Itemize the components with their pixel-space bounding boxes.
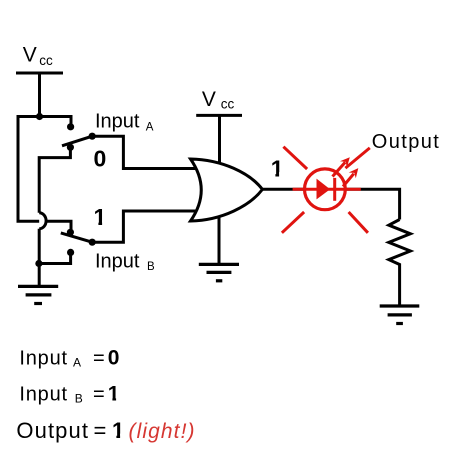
svg-text:Input: Input [19, 384, 67, 406]
switch A (SPDT, set to 0/ground) [62, 123, 96, 151]
svg-text:B: B [147, 261, 155, 273]
label Input_B [95, 250, 155, 273]
svg-text:cc: cc [221, 96, 235, 111]
wire: OR gate ground pin down [218, 214, 221, 264]
resistor R1 [389, 220, 411, 307]
switch B pole dot [89, 239, 96, 246]
switch B bottom contact (to ground) [67, 249, 74, 256]
light ray lower-right [349, 212, 368, 233]
ground symbol (resistor) [380, 306, 420, 324]
switch B blade [61, 233, 92, 242]
switch A blade [62, 136, 92, 146]
light ray upper-left [283, 147, 307, 169]
caption line 3: Output = 1 (light!) [16, 418, 195, 443]
svg-text:Output: Output [16, 418, 89, 443]
wire hop: ground rail hops over Vcc feed wire [39, 213, 46, 229]
Vcc bar (gate) [196, 114, 242, 117]
LED D1 circle outline [305, 169, 346, 210]
wire: Vcc junction to switch A top contact and left Vcc rail down to switch B top contact [18, 117, 71, 233]
switch B top contact (to Vcc) [67, 229, 74, 236]
light ray lower-left [282, 212, 304, 233]
svg-text:1: 1 [108, 383, 120, 406]
wire: Vcc bar down to junction [38, 73, 41, 117]
LED D1 circle (white interior) [304, 169, 345, 210]
switch A top contact (to Vcc) [67, 123, 74, 130]
Vcc supply symbol (left), label V_cc [16, 44, 63, 117]
caption line 1: Input_A = 0 [19, 347, 119, 370]
wire: switch A pole to OR gate input A [92, 136, 197, 168]
svg-text:=: = [93, 384, 105, 406]
svg-text:=: = [94, 418, 107, 443]
svg-text:=: = [93, 348, 105, 370]
svg-text:V: V [202, 88, 216, 111]
svg-text:Input: Input [95, 110, 140, 132]
svg-text:A: A [73, 355, 81, 369]
wire: Vcc to OR gate power pin [218, 115, 221, 166]
label Input_A [95, 110, 154, 133]
svg-text:Input: Input [95, 250, 140, 272]
svg-text:A: A [146, 122, 154, 134]
node: ground rail junction dot [35, 260, 42, 267]
svg-text:Output: Output [372, 131, 440, 153]
svg-text:1: 1 [112, 418, 124, 443]
Vcc bar (left) [16, 72, 63, 75]
svg-text:cc: cc [39, 53, 53, 68]
caption line 2: Input_B = 1 [19, 383, 119, 406]
svg-text:Input: Input [19, 348, 67, 370]
wire: ground rail from switch A bottom contact down the left side [39, 147, 70, 286]
svg-text:V: V [23, 44, 37, 67]
svg-text:(light!): (light!) [129, 420, 196, 443]
ground symbol (OR gate) [199, 264, 239, 280]
svg-text:B: B [75, 391, 83, 405]
light ray upper-right [345, 148, 369, 168]
svg-text:0: 0 [108, 347, 120, 370]
switch A bottom contact (to ground) [67, 144, 74, 151]
LED D1 anode triangle [317, 179, 331, 200]
LED D1 cathode bar [333, 178, 336, 201]
OR gate U1 body [191, 159, 263, 221]
Vcc supply symbol (OR gate), label V_cc [196, 88, 242, 166]
switch A pole dot [89, 133, 96, 140]
wire: red lead segment through LED [293, 188, 361, 191]
switch B (SPDT, set to 1/Vcc) [61, 229, 96, 256]
svg-text:0: 0 [94, 145, 107, 171]
node: Vcc junction dot [36, 113, 43, 120]
wire: OR gate output to LED and to resistor corner [262, 189, 399, 219]
LED emission arrow 1 [333, 157, 350, 176]
LED emission arrow 2 [343, 168, 358, 186]
white masks to square off digit 1 feet [93, 172, 284, 439]
ground symbol (left, switches) [18, 286, 58, 303]
wire: switch B pole to OR gate input B [92, 211, 197, 242]
svg-text:1: 1 [94, 204, 107, 230]
